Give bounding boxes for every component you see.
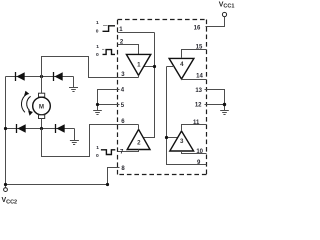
wire U3 output to pin 11: [182, 125, 207, 132]
svg-text:CC2: CC2: [6, 200, 17, 206]
driver U1: [126, 54, 150, 75]
diode D2: [54, 72, 63, 81]
svg-text:14: 14: [196, 73, 203, 79]
rotation arrow outer: [21, 91, 29, 113]
svg-text:15: 15: [196, 44, 203, 50]
motor M1: [33, 77, 51, 129]
node B (motor bottom junction): [40, 127, 43, 130]
enable vertical A: [143, 33, 154, 138]
svg-text:0: 0: [96, 153, 99, 159]
rotation arrow inner: [27, 96, 33, 115]
diode D3: [17, 124, 26, 133]
svg-text:10: 10: [196, 149, 203, 155]
svg-text:3: 3: [180, 138, 184, 145]
svg-text:1: 1: [96, 20, 99, 26]
pin 1 wire (1,2EN): [118, 32, 155, 34]
svg-text:1: 1: [137, 61, 141, 68]
wire: VCC2 bottom rail: [6, 184, 108, 186]
driver U2: [127, 129, 150, 149]
pulse input C (pin 7): [96, 145, 115, 159]
pulse input A (pin 1): [96, 20, 115, 35]
node enable B dot: [165, 136, 168, 139]
pulse input B (pin 2): [96, 44, 115, 58]
wire: motor top row: [6, 76, 74, 78]
svg-text:11: 11: [193, 120, 200, 126]
svg-text:4: 4: [180, 61, 184, 68]
wire U3 input to pin 10: [182, 151, 207, 154]
node A (motor top junction): [40, 75, 43, 78]
wire: 2Y detour to pin 6: [42, 125, 139, 157]
pin 2 wire (1A): [118, 45, 139, 55]
svg-text:CC1: CC1: [223, 4, 234, 10]
node rail-bottom-row junction: [4, 127, 7, 130]
ground G2 (pins 4,5): [93, 90, 119, 115]
driver U4: [169, 58, 194, 79]
enable vertical B: [167, 67, 207, 165]
wire U1 output stub: [138, 75, 140, 77]
wire: motor bottom row: [6, 128, 75, 130]
ground G4 (pins 12,13): [205, 90, 229, 115]
svg-text:1: 1: [96, 145, 99, 151]
wire U2 output stub (to pin 6 row): [138, 125, 140, 130]
wire U4 output to pin 14: [182, 78, 207, 81]
svg-text:13: 13: [195, 88, 202, 94]
node pin8-rail junction: [106, 183, 109, 186]
node VCC2 junction dot: [4, 183, 7, 186]
wire: pin 8 to VCC2 rail: [108, 168, 120, 185]
svg-text:M: M: [39, 103, 44, 110]
wire enable to U4: [167, 66, 175, 68]
diode D1: [16, 72, 25, 81]
driver U3: [170, 131, 194, 151]
svg-text:1: 1: [96, 44, 99, 50]
diode D4: [56, 124, 65, 133]
wire enable to U1: [144, 66, 155, 68]
svg-text:0: 0: [96, 52, 99, 58]
node enable A dot: [153, 65, 156, 68]
ground G1: [69, 77, 78, 92]
IC dashed box U1 outline: [118, 20, 207, 175]
wire enable to U3: [167, 137, 178, 139]
wire: VCC2 left rail: [5, 77, 7, 185]
wire: 1Y detour to pin 3: [42, 57, 139, 78]
svg-text:2: 2: [137, 139, 141, 146]
ground G3: [70, 129, 79, 145]
terminal VCC1: [206, 1, 235, 26]
terminal VCC2: [5, 186, 7, 188]
svg-text:16: 16: [194, 26, 201, 32]
svg-text:12: 12: [195, 103, 202, 109]
svg-text:0: 0: [96, 28, 99, 34]
pin 7 wire (2A): [118, 150, 139, 152]
pin 15 wire (4A): [182, 50, 207, 58]
